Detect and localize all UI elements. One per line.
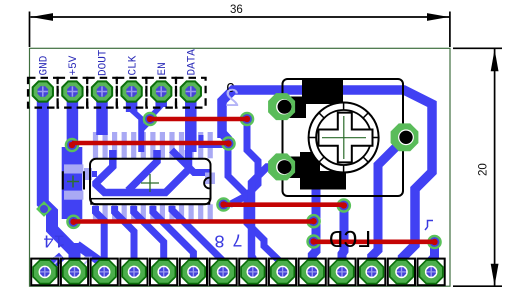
connector LCD pad 5 xyxy=(152,260,175,283)
connector J1 pin 4 pad CLK xyxy=(121,81,141,101)
via B left xyxy=(65,138,80,153)
via D left xyxy=(66,215,81,230)
wire inside U1 right diagonal xyxy=(172,150,212,173)
wire fan U1 pin to LCD pad 6 xyxy=(153,206,194,264)
connector LCD pad 10 xyxy=(301,260,324,283)
trimpot R1 rotor inner circle xyxy=(316,110,371,165)
connector LCD pad 2 xyxy=(63,260,86,283)
wire U1 pin 12 to via B xyxy=(201,135,226,146)
svg-text:20: 20 xyxy=(478,163,490,176)
connector LCD pad 3 xyxy=(92,260,115,283)
wire via B right down to LCD pad 9 xyxy=(228,147,283,264)
connector J1 pin 1 pad GND xyxy=(33,81,53,101)
svg-text:LCD: LCD xyxy=(329,228,372,255)
IC U1 origin cross xyxy=(141,174,159,192)
svg-text:2: 2 xyxy=(224,84,240,114)
via B right xyxy=(221,136,236,151)
wire fan U1 pin to LCD pad 7 xyxy=(172,206,223,264)
silk pin flag above LCD pad 2 (lavender) xyxy=(83,258,91,267)
connector LCD pad 13 xyxy=(390,260,413,283)
wire trimpot left-bottom pad to LCD pad 8 xyxy=(252,167,283,264)
trimpot R1 pad left-top xyxy=(268,93,295,120)
svg-text:CLK: CLK xyxy=(127,55,139,75)
svg-text:DOUT: DOUT xyxy=(98,49,110,76)
trimpot R1 pad right xyxy=(391,123,419,151)
svg-text:DATA: DATA xyxy=(187,49,199,76)
capacitor C1 outline xyxy=(63,171,84,189)
wire +5V capacitor column xyxy=(62,147,83,219)
trimpot R1 body outline xyxy=(283,79,404,196)
connector LCD pad 1 xyxy=(33,260,56,283)
capacitor C1 origin cross xyxy=(67,176,79,188)
connector J1 pin 5 pad EN xyxy=(151,81,171,101)
trimpot R1 black pad squares xyxy=(276,97,306,119)
wire fan U1 pin to LCD pad 4 xyxy=(115,206,134,264)
IC U1 pin1 notch xyxy=(204,178,209,189)
connector LCD pad 12 xyxy=(360,260,383,283)
wire red jumper C xyxy=(224,202,344,207)
svg-text:14: 14 xyxy=(43,230,65,250)
svg-text:36: 36 xyxy=(230,4,243,16)
capacitor C1 pad bottom (lavender) xyxy=(64,191,83,200)
wire via C right to LCD pad 11 xyxy=(342,207,344,264)
connector J1 pin 3 pad DOUT xyxy=(92,81,112,101)
wire U1 left stub xyxy=(86,171,97,177)
silk pin flag near LCD pad 14 xyxy=(425,221,433,231)
via red centers xyxy=(69,116,438,245)
wire GND branch to LCD pad 3 xyxy=(77,245,104,264)
wire red jumper A xyxy=(72,119,435,242)
wire GND from J1-1 down xyxy=(43,90,435,269)
wire CLK from J1-4 xyxy=(126,91,138,112)
svg-text:EN: EN xyxy=(157,62,169,75)
trimpot R1 rotor outer circle xyxy=(309,103,379,173)
IC U1 SMD pads bottom row (lavender strips) xyxy=(93,204,213,222)
wire net T1 from via B up over trimpot to LCD pad 13 xyxy=(222,90,432,264)
wire fan U1 pin to LCD pad 3 xyxy=(96,206,105,264)
IC U1 body outline xyxy=(90,159,211,205)
svg-text:8: 8 xyxy=(214,230,225,250)
trimpot R1 pad left-bottom xyxy=(268,153,295,180)
wire via A right down to via C left xyxy=(230,124,258,205)
connector LCD pad 4 xyxy=(122,260,145,283)
wire inside U1 diagonal xyxy=(128,150,157,191)
wire +5V from J1-2 to via xyxy=(67,91,79,146)
trimpot R1 bottom tab xyxy=(300,152,346,190)
connector J1 pin 6 pad DATA xyxy=(181,81,201,101)
trimpot R1 top tab xyxy=(302,80,343,105)
trimpot R1 rotor ticks xyxy=(309,103,379,173)
wire GND branch to LCD pad 1 xyxy=(47,256,62,269)
via E left xyxy=(306,234,321,249)
wire inside U1 staircase xyxy=(96,150,189,193)
connector LCD pad 9 xyxy=(271,260,294,283)
wire trimpot tab to LCD pad 10 xyxy=(312,188,316,264)
wire DOUT from J1-3 to U1 xyxy=(96,91,108,135)
wire CLK jog to U1 pin xyxy=(132,110,141,152)
via A right xyxy=(240,112,255,127)
silk pin flag above LCD pad 1 (lavender) xyxy=(53,258,61,267)
wire red jumper D xyxy=(74,219,314,224)
trimpot R1 xyxy=(276,79,403,196)
trimpot R1 screw slot xyxy=(319,113,373,163)
IC U1 SMD pads top row (lavender strips) xyxy=(93,132,213,158)
via diamond GND xyxy=(36,201,52,217)
connector LCD pad 14 xyxy=(419,260,442,283)
svg-text:GND: GND xyxy=(39,55,51,75)
connector J1 silk dashed squares xyxy=(28,78,206,108)
wire DATA from J1-6 to U1 xyxy=(185,91,197,152)
wire via E right to LCD pad 14 xyxy=(431,243,434,264)
silk label GND xyxy=(39,55,51,75)
board outline xyxy=(30,48,451,286)
via E right xyxy=(427,235,442,250)
svg-text:+5V: +5V xyxy=(68,55,80,75)
wire red jumper B xyxy=(72,141,229,146)
via D right xyxy=(306,214,321,229)
connector LCD pad 11 xyxy=(330,260,353,283)
via A left xyxy=(143,112,158,127)
capacitor C1 pad top (lavender) xyxy=(64,164,83,173)
via C left xyxy=(216,197,231,212)
connector LCD pad 6 xyxy=(182,260,205,283)
wire EN from J1-5 xyxy=(155,91,167,107)
wire trimpot left-top pad stub xyxy=(278,92,285,103)
connector LCD silk squares xyxy=(31,259,445,286)
connector J1 pin 2 pad +5V xyxy=(62,81,82,101)
dimension 20 xyxy=(453,48,502,286)
wire via A continuation down-left xyxy=(142,121,151,152)
dimension 36 xyxy=(30,12,450,48)
connector LCD pad 7 xyxy=(211,260,234,283)
wire fan U1 pin to LCD pad 5 xyxy=(134,206,164,264)
trimpot R1 origin cross xyxy=(322,116,366,159)
via C right xyxy=(337,198,352,213)
wire trimpot right pad to LCD pad 12 xyxy=(372,140,403,264)
IC U1 side pad right near notch (lavender) xyxy=(205,173,215,185)
svg-text:7: 7 xyxy=(232,229,243,249)
IC U1 side pad left (lavender) xyxy=(84,168,92,180)
connector LCD pad 8 xyxy=(241,260,264,283)
wire EN diagonal to via xyxy=(150,105,162,118)
wire red jumper E xyxy=(314,240,435,245)
